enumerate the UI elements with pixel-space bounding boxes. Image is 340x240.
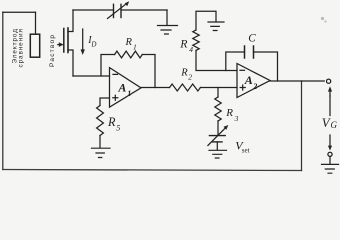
wire C to output node: [254, 52, 278, 81]
op-amp A2: [237, 64, 270, 98]
variable capacitor arrow: [108, 3, 128, 19]
resistor R5: [97, 106, 104, 136]
wire A1 noninverting input to R5: [100, 98, 110, 106]
resistor R4: [193, 30, 199, 50]
variable capacitor plate 2: [120, 4, 122, 17]
resistor R1: [115, 51, 143, 58]
VG arrow down: [328, 146, 332, 151]
ground (top, drain net): [158, 26, 178, 35]
transistor Q1 source wire: [68, 50, 73, 76]
svg-text:4: 4: [189, 45, 193, 54]
wire R4 top to ground: [196, 11, 216, 30]
op-amp A1 plus sign: [113, 95, 118, 100]
ground (VG): [322, 164, 339, 173]
wire R1 to output node: [142, 55, 155, 88]
wire top drain rail: [73, 9, 114, 11]
scan speck: [321, 17, 324, 20]
ground (under R5): [92, 148, 111, 157]
wire node to R3: [217, 88, 219, 98]
op-amp A1: [110, 68, 142, 108]
source Vset arrow: [208, 127, 226, 146]
transistor Q1 drain wire: [68, 10, 73, 32]
terminal VG top: [327, 79, 331, 83]
op-amp A2 minus sign: [240, 69, 245, 71]
svg-text:Раствор: Раствор: [49, 35, 56, 67]
wire A1 output: [141, 87, 170, 89]
variable capacitor plate 1: [113, 4, 115, 17]
wire R3 to Vset: [217, 121, 219, 135]
wire Vset to ground: [216, 142, 218, 150]
op-amp A1 minus sign: [113, 73, 118, 75]
capacitor C plate 2: [253, 46, 255, 58]
resistor R3: [215, 97, 221, 121]
wire R5 to ground: [99, 136, 101, 148]
svg-text:A: A: [117, 80, 126, 94]
reference electrode body: [30, 34, 39, 57]
svg-text:C: C: [248, 33, 256, 45]
resistor R2: [170, 84, 201, 91]
transistor Q1 channel bar: [67, 28, 69, 53]
wire beaker top edge: [3, 11, 36, 13]
ground (above A2, R4 net): [208, 22, 224, 31]
wire source to A1 inverting input: [73, 75, 110, 77]
svg-text:5: 5: [116, 123, 120, 132]
wire to top ground: [166, 10, 168, 25]
svg-text:3: 3: [234, 114, 239, 123]
svg-text:1: 1: [133, 42, 137, 51]
wire R2 to A2 noninverting input: [200, 87, 237, 89]
svg-text:R: R: [107, 115, 116, 129]
wire left rail (beaker left side): [2, 12, 4, 169]
wire A2 output: [270, 80, 324, 82]
wire right feedback rail: [301, 81, 303, 171]
source Vset plate long: [209, 135, 225, 137]
ground (under Vset): [209, 150, 227, 158]
svg-text:G: G: [331, 120, 338, 130]
transistor Q1 gate bar: [63, 29, 65, 53]
svg-text:сравнения: сравнения: [17, 28, 24, 67]
wire feedback node up to R1: [101, 55, 115, 77]
capacitor C plate 1: [244, 46, 246, 58]
wire reference electrode lead: [35, 12, 37, 34]
VG arrow up: [329, 90, 331, 96]
svg-text:R: R: [225, 107, 233, 119]
svg-text:D: D: [90, 40, 96, 48]
current arrow ID: [82, 29, 84, 51]
wire C loop left vertical: [226, 52, 245, 71]
VG line upper: [329, 96, 331, 116]
svg-text:set: set: [242, 146, 250, 154]
wire R4 to A2 inverting input: [196, 51, 237, 71]
svg-text:A: A: [244, 73, 253, 87]
source Vset plate short: [213, 141, 222, 143]
label: Электрод сравнения: [12, 28, 25, 67]
svg-text:1: 1: [127, 89, 131, 98]
svg-text:2: 2: [188, 73, 192, 82]
svg-text:R: R: [179, 36, 188, 50]
wire bottom rail: [3, 170, 302, 171]
svg-text:R: R: [125, 37, 133, 48]
svg-text:2: 2: [252, 82, 257, 91]
VG line lower: [329, 135, 331, 146]
wire top rail right of capacitor: [121, 9, 167, 11]
op-amp A2 plus sign: [240, 85, 245, 90]
transistor Q1 gate arrow: [58, 44, 60, 46]
terminal VG bottom: [328, 152, 332, 156]
wire VG terminal to ground: [329, 157, 331, 165]
svg-text:R: R: [180, 68, 188, 79]
